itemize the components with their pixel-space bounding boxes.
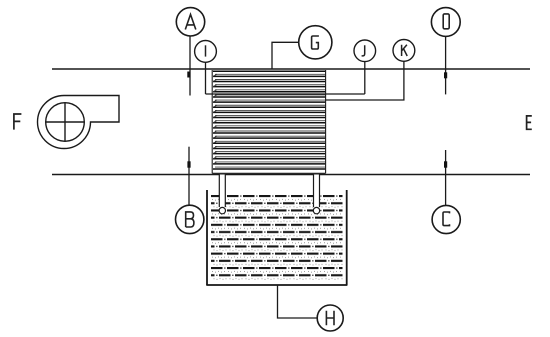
label F [14,114,22,130]
node I [195,41,217,63]
node D [431,8,460,37]
coil light turn lines [215,74,325,167]
node J [354,40,376,62]
coil bottom plate [212,172,325,174]
tank water hatch [211,195,343,280]
pipe right [313,175,319,214]
leader line B [188,147,190,205]
arrow on D leader [444,72,447,78]
leader line K [326,61,404,100]
leader line I [205,62,207,94]
leader line G [272,42,299,69]
arrow on C leader [444,161,447,167]
node A [176,8,204,36]
leader line D [445,36,447,94]
arrow on A leader [187,72,190,78]
node C [432,205,460,233]
coil left boundary [211,70,213,173]
leader line H [278,285,318,318]
fan F impeller circle [46,103,85,142]
wire: top duct line [52,68,530,70]
coil left spiral connectors [213,74,217,164]
label E [527,116,532,129]
node B [176,205,204,233]
leader line A [189,36,191,96]
tank walls [206,190,347,285]
fan F volute [38,96,120,149]
leader line J [364,62,366,94]
leader line C [445,150,447,205]
fan F cross [46,103,85,142]
wire I to J through coil [206,93,365,95]
node H [317,305,343,331]
arrow on B leader [187,161,190,167]
pipe left [219,175,225,214]
node K [393,40,415,62]
wire: bottom duct line [52,174,530,176]
coil dark turn lines [213,71,325,169]
coil (humidifier core): spiral turns [212,70,325,173]
node G [299,26,332,59]
coil right boundary [325,70,327,173]
